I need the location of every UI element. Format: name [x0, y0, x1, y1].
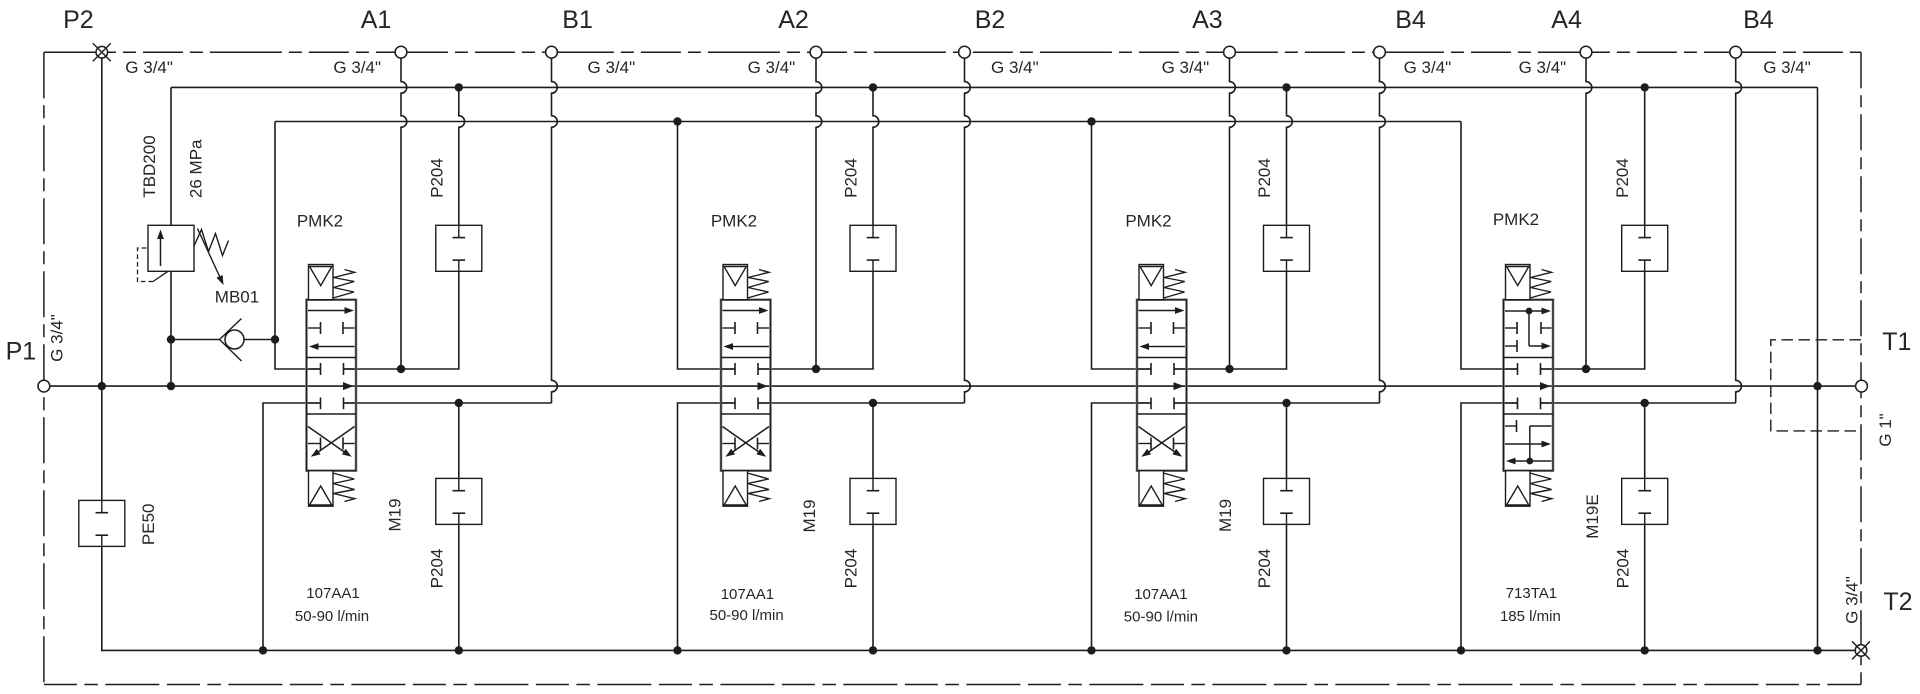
svg-text:PMK2: PMK2	[1493, 210, 1539, 229]
valve V4 top pilot actuator	[1506, 265, 1531, 300]
svg-text:A2: A2	[778, 6, 809, 34]
valve V1 top pilot actuator	[309, 265, 334, 300]
svg-text:26 MPa: 26 MPa	[187, 139, 206, 198]
valve V1 top position parallel arrows	[308, 310, 347, 312]
svg-text:B1: B1	[562, 6, 593, 34]
node shock plug drain on tank bus	[1641, 646, 1649, 654]
wire port B3 drop	[1380, 58, 1386, 403]
node T-return junction on tank bus	[1813, 646, 1821, 654]
svg-text:G 3/4": G 3/4"	[1763, 58, 1811, 77]
svg-text:G 3/4": G 3/4"	[1404, 58, 1452, 77]
wire shock plug to tank bus section 2	[872, 524, 874, 650]
valve V3 body frame	[1137, 300, 1187, 471]
node T-return junction at T1	[1813, 382, 1821, 390]
wire shock plug bottom P204 section 4	[1644, 403, 1646, 478]
wire A1 work line valve to shock plug	[344, 271, 459, 369]
wire PE50 to tank bus	[101, 546, 104, 650]
svg-text:M19: M19	[800, 499, 819, 532]
wire shock plug to tank bus section 1	[458, 524, 460, 650]
wire A4 work line valve to shock plug	[1541, 271, 1645, 369]
wire shock plug bottom P204 section 3	[1286, 403, 1288, 478]
valve V3 bottom spring	[1163, 473, 1185, 502]
T1 internal connection dashed box	[1771, 340, 1861, 431]
node section 3 return on tank bus	[1087, 646, 1095, 654]
svg-text:PMK2: PMK2	[297, 212, 343, 231]
wire shock plug top P204 to T-return bus	[1644, 87, 1646, 225]
wire P2 drop to P line and PE50	[101, 58, 103, 500]
svg-text:B4: B4	[1743, 6, 1774, 34]
shock plug P204 section 1 (A side)	[436, 225, 482, 271]
wire section 2 feed riser	[678, 122, 736, 370]
svg-text:PMK2: PMK2	[711, 212, 757, 231]
wire shock plug top P204 to T-return bus	[873, 87, 879, 225]
port A4	[1580, 46, 1592, 58]
valve V1 top spring	[333, 270, 355, 299]
node A1 on work line	[397, 365, 405, 373]
relief valve TBD200	[148, 225, 194, 271]
node P2 drop on P line	[98, 382, 106, 390]
svg-text:PE50: PE50	[139, 504, 158, 546]
valve V1 bottom spring	[333, 473, 355, 502]
wire T-return bus (upper)	[171, 86, 1818, 88]
wire port B1 drop	[552, 58, 558, 403]
svg-text:P1: P1	[6, 338, 37, 366]
svg-text:713TA1: 713TA1	[1506, 585, 1557, 602]
wire relief valve to P line	[170, 271, 172, 386]
svg-text:P204: P204	[842, 158, 861, 198]
svg-text:M19: M19	[1216, 499, 1235, 532]
svg-text:PMK2: PMK2	[1125, 212, 1171, 231]
svg-text:P204: P204	[842, 549, 861, 589]
manifold envelope left border	[43, 52, 45, 684]
wire A3 work line valve to shock plug	[1174, 271, 1287, 369]
valve V3 bottom position crossed arrows	[1139, 427, 1178, 454]
node relief outlet / check valve branch	[167, 335, 175, 343]
svg-text:P204: P204	[1613, 549, 1632, 589]
check valve MB01	[171, 339, 220, 341]
valve V3 bottom pilot actuator	[1139, 471, 1164, 507]
svg-text:G 3/4": G 3/4"	[125, 58, 173, 77]
wire section 4 return drop to tank bus	[1461, 403, 1518, 650]
valve V1 centre position blocked ports A/B	[320, 363, 322, 375]
node relief drop on P line	[167, 382, 175, 390]
svg-text:A3: A3	[1192, 6, 1223, 34]
valve V3 centre open P passage arrow	[1174, 382, 1185, 390]
wire section 3 return drop to tank bus	[1092, 403, 1152, 650]
plug PE50	[79, 500, 125, 546]
valve V4 bottom position arrows	[1516, 420, 1518, 432]
node shock plug tap on T-return bus	[455, 83, 463, 91]
svg-text:50-90 l/min: 50-90 l/min	[1124, 608, 1198, 625]
shock plug P204 section 4 (A side)	[1622, 225, 1668, 271]
port A1	[395, 46, 407, 58]
wire B1 work line to valve	[344, 402, 552, 404]
svg-text:P204: P204	[1255, 158, 1274, 198]
svg-text:M19E: M19E	[1583, 494, 1602, 538]
manifold envelope bottom border	[44, 684, 1861, 686]
shock plug P204 section 3 (A side)	[1264, 225, 1310, 271]
wire shock plug top P204 to T-return bus	[459, 87, 465, 225]
valve V1 body frame	[307, 300, 357, 471]
svg-text:185 l/min: 185 l/min	[1500, 608, 1561, 625]
valve V2 bottom pilot actuator	[723, 471, 748, 507]
svg-text:T1: T1	[1882, 328, 1911, 356]
svg-text:G 3/4": G 3/4"	[588, 58, 636, 77]
wire section 3 feed riser	[1092, 122, 1152, 370]
wire T-return bus down to T1	[1817, 87, 1819, 650]
valve V3 top position parallel arrows	[1139, 310, 1178, 312]
valve V1 bottom pilot actuator	[309, 471, 334, 507]
valve V4 bottom pilot actuator	[1506, 471, 1531, 507]
wire port A4 drop	[1586, 58, 1592, 369]
valve V4 centre position blocked ports A/B	[1517, 363, 1519, 375]
valve V2 bottom spring	[747, 473, 769, 502]
valve V3 top pilot actuator	[1139, 265, 1164, 300]
wire section 2 return drop to tank bus	[678, 403, 736, 650]
svg-text:G 3/4": G 3/4"	[333, 58, 381, 77]
svg-text:P204: P204	[1255, 549, 1274, 589]
valve V2 top position parallel arrows	[723, 310, 762, 312]
port A3	[1224, 46, 1236, 58]
wire shock plug bottom P204 section 1	[458, 403, 460, 478]
svg-text:50-90 l/min: 50-90 l/min	[295, 608, 369, 625]
node shock plug tap on T-return bus	[1641, 83, 1649, 91]
manifold envelope top border	[44, 51, 1861, 53]
shock plug P204 section 4 (B side)	[1622, 478, 1668, 524]
valve V2 bottom position crossed arrows	[723, 427, 762, 454]
svg-text:M19: M19	[386, 498, 405, 531]
wire port A2 drop	[816, 58, 822, 369]
port T2 plugged	[1855, 645, 1867, 657]
valve V1 centre open P passage arrow	[343, 382, 354, 390]
node shock plug tap on T-return bus	[1282, 83, 1290, 91]
valve V4 top spring	[1530, 270, 1552, 299]
node section 3 feed tap on parallel bus	[1087, 117, 1095, 125]
svg-text:G 3/4": G 3/4"	[1519, 58, 1567, 77]
port B3	[1374, 46, 1386, 58]
node section 1 return on tank bus	[259, 646, 267, 654]
node shock plug drain on tank bus	[869, 646, 877, 654]
svg-text:T2: T2	[1883, 588, 1912, 616]
relief valve TBD200 pilot line	[153, 271, 168, 281]
port B2	[959, 46, 971, 58]
wire port B4 drop	[1736, 58, 1742, 403]
node A2 on work line	[812, 365, 820, 373]
wire parallel supply bus	[275, 121, 1461, 123]
valve V2 body frame	[721, 300, 771, 471]
wire section 4 feed riser	[1461, 122, 1518, 370]
port B4	[1730, 46, 1742, 58]
svg-text:B2: B2	[975, 6, 1006, 34]
svg-text:G 3/4": G 3/4"	[991, 58, 1039, 77]
valve V2 top pilot actuator	[723, 265, 748, 300]
shock plug P204 section 2 (A side)	[850, 225, 896, 271]
valve V2 centre position blocked ports A/B	[734, 363, 736, 375]
wire section 1 feed riser	[275, 122, 321, 370]
svg-text:G 3/4": G 3/4"	[48, 314, 67, 362]
shock plug P204 section 1 (B side)	[436, 478, 482, 524]
port A2	[810, 46, 822, 58]
valve V4 body frame	[1504, 300, 1554, 471]
svg-text:P204: P204	[427, 549, 446, 589]
valve V3 centre position blocked ports A/B	[1150, 363, 1152, 375]
wire main P line P1 to T1	[44, 385, 1862, 387]
wire A2 work line valve to shock plug	[758, 271, 873, 369]
valve V4 centre open P passage arrow	[1540, 382, 1551, 390]
wire shock plug top P204 to T-return bus	[1287, 87, 1293, 225]
svg-text:107AA1: 107AA1	[306, 585, 359, 602]
node shock plug drain on tank bus	[455, 646, 463, 654]
node B2 shock plug tap	[869, 399, 877, 407]
svg-text:TBD200: TBD200	[140, 135, 159, 197]
valve V4 bottom spring	[1530, 473, 1552, 502]
shock plug P204 section 2 (B side)	[850, 478, 896, 524]
port T1	[1856, 380, 1868, 392]
node B1 shock plug tap	[455, 399, 463, 407]
svg-text:G 3/4": G 3/4"	[748, 58, 796, 77]
valve V4 top position flow split arrows	[1505, 310, 1544, 312]
wire shock plug bottom P204 section 2	[872, 403, 874, 478]
node A4 on work line	[1582, 365, 1590, 373]
wire relief riser to T-return bus	[170, 87, 172, 225]
svg-text:B4: B4	[1395, 6, 1426, 34]
wire B4 work line to valve	[1541, 402, 1736, 404]
svg-text:G 3/4": G 3/4"	[1162, 58, 1210, 77]
node section 2 feed tap on parallel bus	[673, 117, 681, 125]
svg-text:G 3/4": G 3/4"	[1843, 576, 1862, 624]
svg-text:P204: P204	[427, 158, 446, 198]
svg-text:P204: P204	[1613, 158, 1632, 198]
node shock plug tap on T-return bus	[869, 83, 877, 91]
port P2 plugged	[96, 46, 108, 58]
wire shock plug to tank bus section 4	[1644, 524, 1646, 650]
wire B2 work line to valve	[758, 402, 965, 404]
wire port A3 drop	[1230, 58, 1236, 369]
wire shock plug to tank bus section 3	[1286, 524, 1288, 650]
wire section 1 return drop to tank bus	[263, 403, 321, 650]
manifold envelope right border	[1860, 52, 1862, 684]
svg-text:G 1": G 1"	[1876, 413, 1895, 446]
valve V2 top spring	[748, 270, 770, 299]
node B4 shock plug tap	[1641, 399, 1649, 407]
svg-text:107AA1: 107AA1	[721, 586, 774, 603]
valve V2 centre open P passage arrow	[758, 382, 769, 390]
wire B3 work line to valve	[1174, 402, 1380, 404]
node B3 shock plug tap	[1282, 399, 1290, 407]
relief valve TBD200 adjustment arrow	[198, 229, 222, 280]
svg-text:P2: P2	[63, 6, 94, 34]
node section 2 return on tank bus	[673, 646, 681, 654]
svg-text:MB01: MB01	[215, 288, 259, 307]
node shock plug drain on tank bus	[1282, 646, 1290, 654]
svg-text:50-90 l/min: 50-90 l/min	[709, 607, 783, 624]
port P1	[38, 380, 50, 392]
svg-text:A1: A1	[361, 6, 392, 34]
valve V3 top spring	[1164, 270, 1186, 299]
svg-text:A4: A4	[1551, 6, 1582, 34]
port B1	[546, 46, 558, 58]
shock plug P204 section 3 (B side)	[1264, 478, 1310, 524]
valve V1 bottom position crossed arrows	[308, 427, 347, 454]
relief valve TBD200 spring	[194, 230, 229, 256]
node section 4 return on tank bus	[1457, 646, 1465, 654]
wire port B2 drop	[965, 58, 971, 403]
wire bottom tank bus	[102, 649, 1861, 651]
svg-text:107AA1: 107AA1	[1134, 586, 1187, 603]
wire port A1 drop	[401, 58, 407, 369]
node A3 on work line	[1225, 365, 1233, 373]
node check valve outlet	[271, 335, 279, 343]
